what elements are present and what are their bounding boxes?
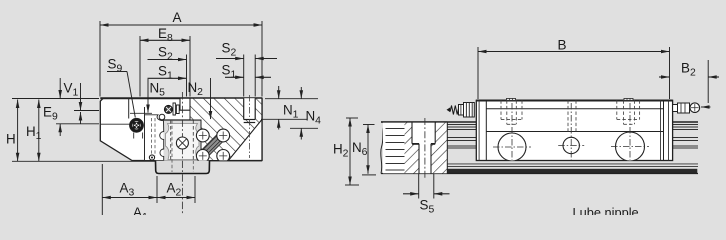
svg-text:Lube nipple: Lube nipple <box>573 205 639 215</box>
svg-text:A: A <box>173 10 182 25</box>
svg-text:H: H <box>6 132 16 147</box>
svg-text:B: B <box>558 38 567 53</box>
